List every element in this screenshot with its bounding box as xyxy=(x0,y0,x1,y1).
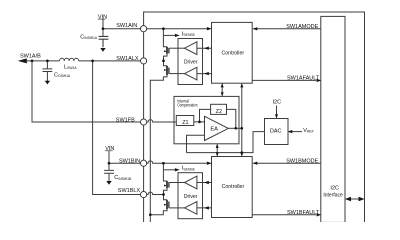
wire VIN-B stem xyxy=(108,151,110,171)
ground arrow COSW1A xyxy=(45,81,50,85)
internal compensation box xyxy=(174,96,239,143)
svg-text:DAC: DAC xyxy=(270,128,282,134)
SW1AIN into controller xyxy=(207,27,212,30)
chip boundary xyxy=(144,12,365,222)
node SW1A/B FB tap xyxy=(31,60,34,63)
svg-text:LSW1A: LSW1A xyxy=(64,64,77,70)
wire SW1BLX to FET (hop) xyxy=(147,192,164,194)
buffer A2 xyxy=(185,67,197,80)
wire ISENSE-A tap xyxy=(163,34,176,36)
wire low FET A drain xyxy=(164,61,168,66)
wire Q1 source to LX xyxy=(164,54,168,61)
wire Q4 gate lead xyxy=(169,207,185,209)
VREF into DAC arrow xyxy=(288,130,293,133)
node EA output bus xyxy=(240,127,243,130)
svg-text:VIN: VIN xyxy=(105,146,114,152)
wire SW1BIN rail xyxy=(109,162,141,164)
ISENSE-B arrowhead xyxy=(175,168,180,171)
wire Z2 loop xyxy=(200,109,236,128)
wire SW1BIN to controller (hop) xyxy=(147,161,211,163)
wire gate drive lines B to controller xyxy=(197,183,212,208)
pin circles xyxy=(141,26,147,198)
capacitor COSW1A xyxy=(43,61,53,81)
wire SW1AIN rail xyxy=(103,28,211,30)
svg-text:ISENSE: ISENSE xyxy=(182,31,196,37)
svg-text:SW1AFAULT: SW1AFAULT xyxy=(287,76,320,82)
SW1AMODE into controller xyxy=(253,27,258,30)
transistor Q1 high-side A channel xyxy=(166,47,168,54)
FET body marks xyxy=(164,50,167,205)
wire I2C bus double arrow stem xyxy=(347,198,364,200)
I2C interface block xyxy=(321,16,345,222)
svg-text:SW1AIN: SW1AIN xyxy=(116,23,137,29)
wire high FET A drain xyxy=(163,29,167,47)
Q4 arrow mark xyxy=(164,204,167,206)
transistor Q4 gate bar xyxy=(168,202,170,208)
bus up arrow into controller A xyxy=(240,83,243,87)
I2C bus arrow left xyxy=(345,197,351,202)
svg-text:I2C: I2C xyxy=(330,185,339,191)
capacitor CINSW1B xyxy=(104,170,114,181)
op-amp EA xyxy=(205,116,229,140)
wire VIN-A stem xyxy=(102,19,104,36)
pin SW1AIN xyxy=(141,26,147,32)
node EA plus input xyxy=(198,121,201,124)
gate A2 arrowhead xyxy=(204,72,209,75)
node gnd rail junction xyxy=(149,213,152,216)
wire I2C to DAC xyxy=(276,106,278,118)
node VIN-A junction xyxy=(102,27,105,30)
SW1BIN into controller xyxy=(207,162,212,165)
svg-text:ISENSE: ISENSE xyxy=(182,166,196,172)
transistor Q4 low-side B channel xyxy=(166,200,168,209)
I2C to DAC down arrow xyxy=(275,114,278,118)
comp to controller A up arrow xyxy=(221,83,224,87)
wires group xyxy=(26,19,363,222)
transistor Q1 gate bar xyxy=(168,48,170,53)
wire Z1 to EA xyxy=(194,121,205,123)
pin SW1BLX xyxy=(141,191,147,197)
wire SW1A/B output rail xyxy=(26,60,141,62)
wire Q3 gate lead xyxy=(169,182,185,184)
buffer B1 xyxy=(185,176,197,189)
inductor LSW1A xyxy=(60,58,79,61)
gate A1 arrowhead xyxy=(204,47,209,50)
transistor Q2 low-side A channel xyxy=(166,66,168,75)
transistor Q2 gate bar xyxy=(168,68,170,74)
svg-text:SW1FB: SW1FB xyxy=(116,117,135,123)
ground arrow CINSW1A xyxy=(100,48,105,52)
DAC box xyxy=(265,119,289,145)
SW1AFAULT into I2C block xyxy=(317,79,322,82)
Z2 box xyxy=(211,104,227,114)
wire SW1BMODE xyxy=(253,162,321,164)
comp to controller B down arrow xyxy=(216,152,219,156)
SW1BFAULT into I2C block xyxy=(317,213,322,216)
node ALX junction xyxy=(162,60,165,63)
comp to controller B up arrow xyxy=(216,144,219,148)
svg-text:COSW1A: COSW1A xyxy=(54,73,71,79)
svg-text:SW1BLX: SW1BLX xyxy=(118,188,141,194)
SW1A/B output arrow xyxy=(18,58,27,63)
transistor Q3 high-side B channel xyxy=(166,181,168,188)
wire SW1BLX tap from output node xyxy=(93,61,141,195)
pin SW1BIN xyxy=(141,160,147,166)
gate B1 arrowhead xyxy=(204,181,209,184)
controller B box xyxy=(212,157,253,218)
pin SW1FB xyxy=(141,119,147,125)
svg-text:SW1BFAULT: SW1BFAULT xyxy=(287,210,320,216)
Q3 arrow mark xyxy=(164,185,167,187)
svg-text:Controller: Controller xyxy=(222,184,245,190)
wire Q3 source to LX xyxy=(164,188,168,195)
transistor Q3 gate bar xyxy=(168,182,170,187)
ISENSE-A arrowhead xyxy=(175,34,180,37)
wire VREF to DAC xyxy=(289,131,302,133)
svg-text:Z1: Z1 xyxy=(182,120,188,126)
wire EA output xyxy=(228,127,242,129)
node DAC bus xyxy=(240,151,243,154)
svg-text:I2C: I2C xyxy=(273,100,282,106)
SW1BMODE into controller xyxy=(253,162,258,165)
svg-text:SW1A/B: SW1A/B xyxy=(20,54,41,60)
svg-text:SW1BMODE: SW1BMODE xyxy=(286,159,318,165)
capacitor CINSW1A xyxy=(99,36,109,46)
bus down arrow into controller B xyxy=(240,152,243,156)
ground arrow CINSW1B xyxy=(106,181,111,185)
svg-text:EA: EA xyxy=(210,127,218,133)
wire SW1AMODE xyxy=(253,28,321,30)
node AIN drain junction xyxy=(162,27,165,30)
svg-text:SW1BIN: SW1BIN xyxy=(119,158,140,164)
controller A box xyxy=(212,22,253,83)
wire Q2 gate lead xyxy=(169,73,185,75)
svg-text:VREF: VREF xyxy=(303,128,313,134)
node EA output xyxy=(234,127,237,130)
wire comp-controllerB arrow stem xyxy=(216,145,218,156)
node BLX drain junction xyxy=(162,193,165,196)
wire SW1FB tap xyxy=(32,61,141,122)
driver box B xyxy=(178,173,203,219)
wire high FET B drain xyxy=(163,163,167,181)
svg-text:Controller: Controller xyxy=(222,50,245,56)
svg-text:Driver: Driver xyxy=(184,60,198,66)
node BLX tap xyxy=(91,60,94,63)
buffer B2 xyxy=(185,202,197,215)
svg-text:Compensation: Compensation xyxy=(177,103,197,108)
Q1 arrow mark xyxy=(164,50,167,52)
wire Q2 source to gnd rail xyxy=(150,75,167,222)
wire SW1AFAULT xyxy=(252,79,316,81)
pin SW1ALX xyxy=(141,58,147,64)
wire EAout/DAC vertical bus xyxy=(241,84,243,156)
buffer A1 xyxy=(185,42,197,55)
driver box A xyxy=(178,39,203,85)
svg-text:Interface: Interface xyxy=(323,192,342,198)
wire Q1 gate lead xyxy=(169,47,185,49)
svg-text:CINSW1A: CINSW1A xyxy=(80,34,98,40)
node VIN-B junction xyxy=(108,162,111,165)
gate B2 arrowhead xyxy=(204,206,209,209)
I2C bus arrow right xyxy=(359,197,365,202)
Q2 arrow mark xyxy=(164,69,167,71)
arrowheads xyxy=(18,27,365,217)
wire gate drive lines A to controller xyxy=(197,48,212,73)
svg-text:VIN: VIN xyxy=(98,15,107,21)
wire DAC feedback rail xyxy=(187,132,265,153)
svg-text:Driver: Driver xyxy=(184,194,198,200)
ground CINSW1A xyxy=(102,39,104,47)
comp to controller A down arrow xyxy=(221,92,224,96)
wire SW1BFAULT xyxy=(252,214,316,216)
svg-text:SW1ALX: SW1ALX xyxy=(116,56,139,62)
blocks xyxy=(174,22,288,218)
wire SW1FB to comp (hop over gnd line) xyxy=(147,120,177,122)
wire ISENSE-B tap xyxy=(163,169,176,171)
wire comp-controllerA arrow stem xyxy=(221,84,223,96)
wire Q4 source to gnd rail xyxy=(150,209,167,215)
svg-text:SW1AMODE: SW1AMODE xyxy=(286,24,318,30)
node COSW1A tap xyxy=(46,60,49,63)
svg-text:CINSW1B: CINSW1B xyxy=(114,175,132,181)
wire low FET B drain xyxy=(164,195,168,200)
node BIN drain junction xyxy=(162,162,165,165)
Z1 box xyxy=(176,116,194,126)
svg-text:Z2: Z2 xyxy=(216,109,222,115)
wire EA inverting input xyxy=(187,135,205,152)
